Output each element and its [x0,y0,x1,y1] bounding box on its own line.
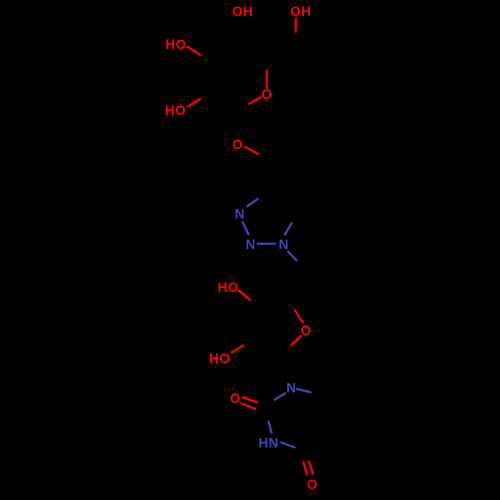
svg-text:OH: OH [232,4,253,19]
svg-text:N: N [235,206,245,221]
svg-text:O: O [230,391,241,406]
bond C2'-OH (ribose upper HO) [239,291,250,300]
svg-text:N: N [279,237,289,252]
bond C6-OH (glucose, to top-right OH) [295,19,297,32]
bond C3'-OH (ribose lower HO) [232,346,243,353]
bond C4-N3 (triazole) [247,199,257,206]
bond C3-OH (glucose, lower-left HO) [188,99,200,107]
bond N3-C4 (uracil) [281,443,294,448]
bond O-CH2 (glycosidic ether O to methylene) [245,147,257,154]
svg-text:HO: HO [218,280,239,295]
bond N2-N1 (triazole, horizontal) [258,243,275,245]
svg-text:O: O [261,87,272,102]
svg-text:HO: HO [209,351,230,366]
bond O-C1 (glucose ring O, down-left) [249,97,261,104]
svg-text:N: N [286,381,296,396]
double bond C4=O (uracil, left line) [303,462,307,474]
svg-text:O: O [300,323,311,338]
svg-text:O: O [307,477,318,492]
bond O-C1' (ribose ring O, lower) [292,336,302,345]
bond C4-OH (glucose, upper-left HO) [188,47,201,55]
bond N1-C6 (uracil) [297,389,311,392]
svg-text:OH: OH [290,4,311,19]
svg-text:N: N [246,237,256,252]
bond C5-N1 (triazole) [285,223,292,234]
svg-text:HO: HO [165,103,186,118]
svg-text:HO: HO [165,37,186,52]
bond C2-N3 (uracil) [269,422,272,433]
double bond C2=O (uracil, lower line) [241,403,255,408]
bond C4'-O (ribose ring O, upper) [295,310,303,322]
bond N3-N2 (triazole) [243,222,249,234]
bond N1-C2 (uracil) [275,393,286,399]
double bond C2=O (uracil, upper line) [243,397,257,402]
svg-text:HN: HN [258,436,279,451]
bond N1-CH2 (triazole to ribose 5') [288,252,297,261]
svg-text:O: O [232,137,243,152]
double bond C4=O (uracil, right line) [309,462,313,474]
bond C5-O (glucose ring O, vertical) [266,71,268,88]
